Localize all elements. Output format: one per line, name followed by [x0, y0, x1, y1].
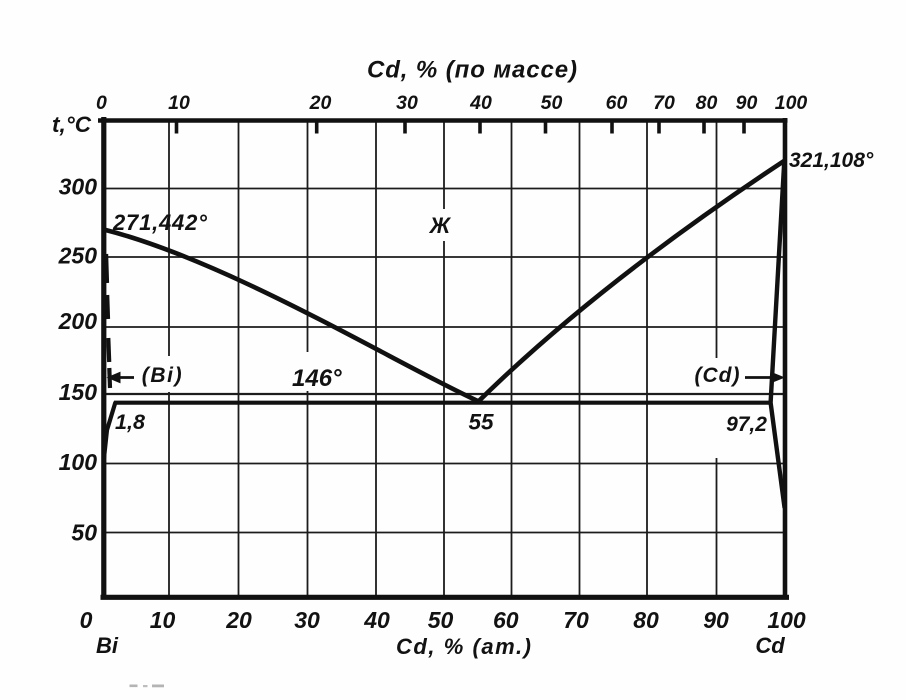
svg-text:Cd: Cd	[755, 633, 785, 658]
svg-text:300: 300	[59, 174, 98, 200]
svg-text:150: 150	[59, 379, 98, 405]
svg-text:40: 40	[469, 92, 492, 114]
svg-text:(Cd): (Cd)	[695, 364, 741, 387]
svg-text:Cd, % (по массе): Cd, % (по массе)	[367, 57, 577, 84]
svg-text:55: 55	[468, 410, 494, 435]
svg-text:100: 100	[59, 449, 98, 475]
svg-text:60: 60	[606, 92, 628, 114]
svg-text:80: 80	[633, 607, 659, 633]
svg-text:40: 40	[363, 607, 390, 633]
svg-text:271,442°: 271,442°	[112, 210, 208, 235]
svg-text:(Bi): (Bi)	[142, 364, 183, 387]
svg-text:20: 20	[309, 92, 332, 114]
svg-text:97,2: 97,2	[726, 413, 767, 436]
svg-text:90: 90	[703, 607, 729, 633]
svg-text:146°: 146°	[292, 365, 342, 392]
svg-text:1,8: 1,8	[115, 410, 145, 434]
svg-text:20: 20	[225, 607, 252, 633]
svg-text:0: 0	[96, 92, 107, 114]
svg-text:100: 100	[775, 92, 808, 114]
svg-text:80: 80	[696, 92, 718, 114]
svg-text:0: 0	[80, 607, 93, 633]
svg-text:60: 60	[493, 607, 519, 633]
svg-text:100: 100	[767, 607, 806, 633]
svg-text:30: 30	[396, 92, 418, 114]
svg-text:30: 30	[294, 607, 320, 633]
svg-text:50: 50	[541, 92, 563, 114]
svg-text:70: 70	[563, 607, 589, 633]
svg-text:Cd, % (ат.): Cd, % (ат.)	[396, 634, 531, 659]
svg-text:10: 10	[150, 607, 176, 633]
svg-text:10: 10	[168, 92, 190, 114]
svg-text:250: 250	[58, 243, 98, 269]
svg-text:Bi: Bi	[96, 633, 119, 658]
svg-text:t,°C: t,°C	[52, 112, 92, 137]
svg-text:90: 90	[736, 92, 758, 114]
svg-text:50: 50	[428, 607, 454, 633]
svg-text:70: 70	[653, 92, 675, 114]
svg-text:200: 200	[58, 308, 98, 334]
svg-text:Ж: Ж	[429, 213, 452, 238]
svg-text:321,108°: 321,108°	[789, 149, 874, 172]
svg-text:50: 50	[71, 520, 97, 546]
